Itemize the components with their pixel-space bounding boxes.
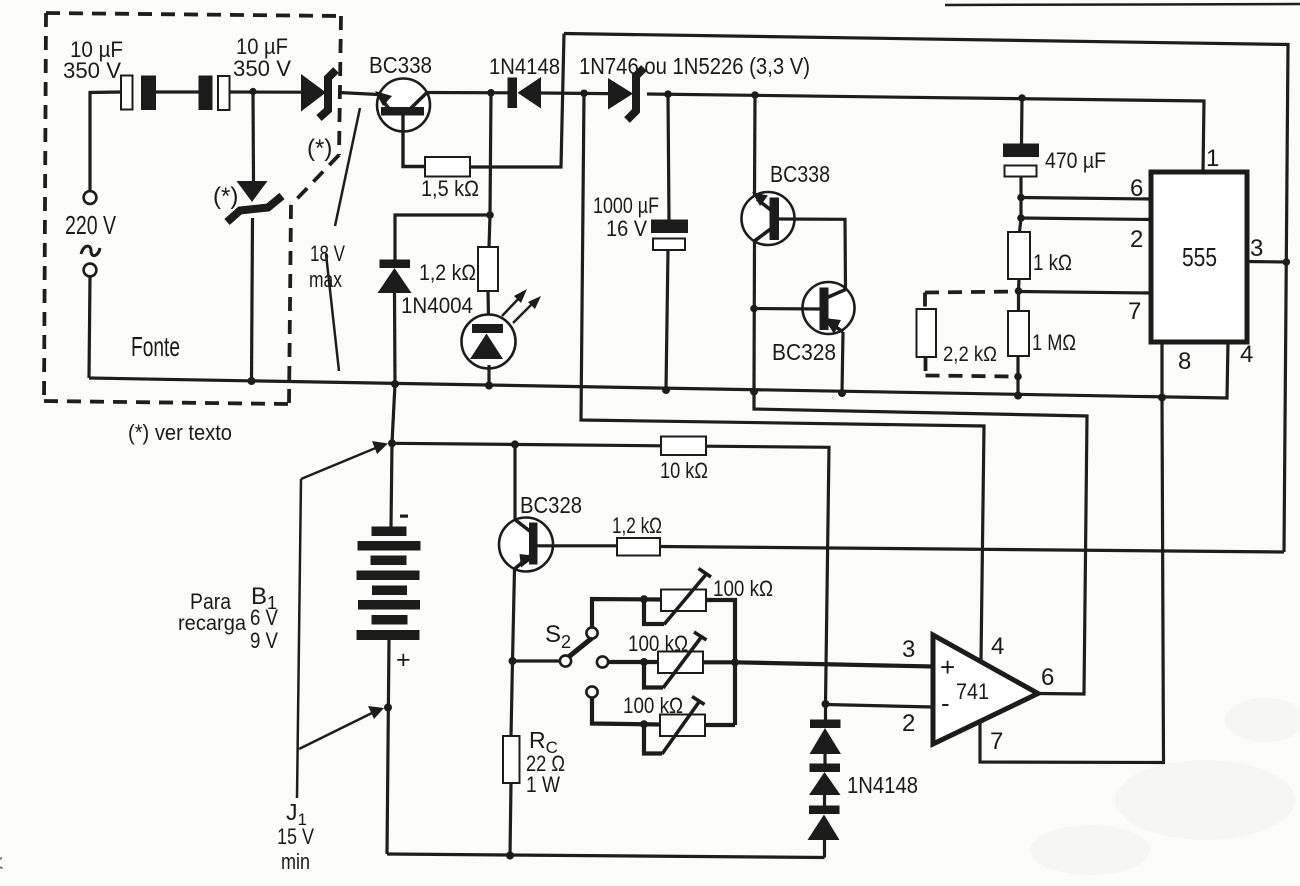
wire 10k line battery node to R3: [392, 443, 661, 446]
label battery minus: [400, 515, 408, 518]
resistor R4 1k: [1008, 232, 1030, 279]
scan page edge artifact top right: [945, 4, 1300, 5]
wire ZD1 to 555 pin1 corner: [647, 94, 1204, 172]
junction dot 470uF tap: [1018, 94, 1026, 102]
wire P2 to pot bus and junction: [703, 660, 735, 664]
mid rail 0V bus: [89, 342, 1228, 398]
zener diode (*) vertical pointing down: [227, 181, 282, 222]
diode D3 1N4148 pointing up: [810, 704, 842, 754]
resistor R1 1.5k: [425, 157, 470, 177]
svg-text:2: 2: [1130, 226, 1143, 253]
capacitor C2 10uF 350V: [199, 76, 230, 111]
svg-text:1,2 kΩ: 1,2 kΩ: [612, 513, 662, 538]
op-amp U2 741: [933, 635, 1038, 744]
junction dot diode stack top: [822, 700, 830, 708]
AC tilde symbol: [81, 246, 100, 256]
switch S2 pole terminal: [560, 655, 571, 666]
wire battery minus riser from mid rail: [392, 384, 395, 443]
resistor R2 1.2k: [478, 247, 498, 291]
svg-text:(*): (*): [213, 183, 238, 210]
J1 arrow lower: [299, 706, 384, 749]
svg-text:1 kΩ: 1 kΩ: [1033, 250, 1072, 275]
svg-text:1,5 kΩ: 1,5 kΩ: [421, 176, 479, 201]
resistor R8 Rc 22ohm: [503, 736, 520, 783]
svg-text:BC328: BC328: [520, 492, 582, 518]
wire 1N4004 to mid rail: [393, 293, 397, 384]
wire S2 node to pole: [513, 659, 560, 662]
label 18 V max: [309, 241, 345, 292]
wire throw2 to pot P2: [608, 660, 658, 664]
svg-text:2,2 kΩ: 2,2 kΩ: [943, 343, 997, 366]
diode D1 1N4148 pointing left: [508, 77, 542, 109]
svg-text:6: 6: [1041, 664, 1054, 691]
junction dot pin6 node: [1017, 194, 1025, 202]
wire battery minus node to battery: [391, 443, 392, 527]
wire Rc to bottom rail: [510, 783, 511, 856]
transistor Q3 BC328: [803, 282, 855, 334]
svg-text:1: 1: [1206, 145, 1219, 172]
svg-text:100 kΩ: 100 kΩ: [628, 631, 688, 656]
junction dot LED branch tap: [487, 89, 495, 97]
transistor Q2 BC338: [742, 192, 795, 245]
junction dot mid rail C3: [662, 386, 670, 394]
wire 555 pin8 to mid rail: [1160, 342, 1163, 398]
wire R2 to LED: [486, 291, 490, 318]
wire R3 to diode stack riser: [706, 446, 829, 704]
svg-text:-: -: [941, 688, 950, 718]
wire R1 to riser to top rail: [470, 34, 564, 168]
leader line upper for 18V max: [335, 108, 360, 226]
diode D5 1N4148 pointing up: [808, 795, 840, 840]
svg-text:4: 4: [991, 633, 1004, 660]
wire Q1 base down and right to R1: [403, 113, 425, 167]
svg-text:1 MΩ: 1 MΩ: [1032, 330, 1076, 355]
leader line lower for 18V max: [326, 254, 339, 371]
svg-text:8: 8: [1178, 348, 1191, 375]
junction dot P1 wiper tie: [640, 595, 648, 603]
wire 741 supply net from top tap down and right to pin4: [581, 93, 984, 660]
svg-text:3: 3: [902, 636, 915, 663]
svg-text:recarga: recarga: [178, 612, 246, 635]
wire 555 pin3 to right rail: [1247, 260, 1286, 264]
wire S2 node to Rc: [511, 661, 513, 736]
junction dot LED branch split: [486, 211, 494, 219]
wire 555 pin7: [1019, 292, 1152, 294]
svg-text:100 kΩ: 100 kΩ: [713, 576, 773, 601]
terminal 220V lower: [84, 264, 97, 277]
svg-text:350 V: 350 V: [63, 58, 121, 83]
wire Q4 collector riser: [513, 444, 516, 519]
svg-text:max: max: [309, 267, 342, 292]
LED indicator: [462, 315, 516, 369]
svg-text:6 V: 6 V: [250, 605, 278, 630]
wire Q2 base to Q3 collector: [779, 219, 846, 290]
wire 741 pin7 to mid rail: [980, 398, 1164, 763]
junction dot mid rail R5: [1014, 392, 1022, 400]
wire node to mid rail: [1016, 377, 1019, 396]
svg-text:3: 3: [1250, 235, 1263, 262]
wire R5 to lower node: [1016, 356, 1019, 377]
wire throw1 to pot P1: [592, 599, 661, 627]
junction dot mid rail Q3 emitter: [838, 389, 846, 397]
wire P3 to pot bus: [705, 723, 735, 727]
wire vertical zener to bottom rail: [252, 218, 253, 381]
potentiometer P3 100k: [644, 697, 705, 755]
potentiometer P1 100k: [644, 569, 711, 625]
wire Q4 emitter down to S2 node: [513, 569, 515, 661]
junction dot Q3 base node: [750, 305, 758, 313]
svg-text:BC338: BC338: [369, 52, 432, 78]
resistor R6 2.2k optional dashed links: [925, 292, 1016, 377]
wire Q3 base to node: [754, 307, 820, 311]
wire R4 to pin7 node: [1017, 279, 1021, 291]
junction dot 1000uF tap: [664, 90, 672, 98]
LED emission arrow 2: [513, 296, 541, 323]
wire Q3 emitter to mid rail: [842, 332, 843, 393]
wire branch split to 1N4004: [395, 215, 490, 260]
LED emission arrow 1: [502, 289, 527, 316]
junction dot pin7 node: [1015, 287, 1023, 295]
resistor R3 10k: [661, 437, 706, 456]
wire C1 to C2: [156, 90, 199, 93]
junction dot mid rail zener: [248, 377, 256, 385]
svg-text:350 V: 350 V: [233, 56, 291, 81]
wire 555 pin6: [1021, 198, 1151, 200]
wire pin2 node to R4: [1020, 218, 1022, 232]
svg-text:470 µF: 470 µF: [1045, 148, 1106, 173]
resistor R7 1.2k: [617, 538, 660, 556]
wire Q2 collector down to Q3 base node: [752, 241, 756, 391]
junction dot R5 lower node: [1014, 373, 1022, 381]
wire P1 to pot bus: [706, 600, 735, 725]
junction dot P2 wiper tie: [640, 658, 648, 666]
svg-text:741: 741: [956, 679, 989, 704]
diode D2 1N4004 pointing up: [378, 260, 412, 294]
wire R7 to right rail 555 output net: [660, 547, 1284, 553]
junction dot Q4 collector tap: [511, 440, 519, 448]
capacitor C1 10uF 350V: [121, 76, 156, 111]
svg-text:220 V: 220 V: [65, 210, 116, 240]
junction dot bottom rail Rc: [506, 852, 514, 860]
wire Q1 collector to 1N4148: [427, 91, 508, 95]
junction dot battery minus node: [388, 439, 396, 447]
svg-text:100 kΩ: 100 kΩ: [623, 693, 683, 718]
wire 555 pin2: [1021, 218, 1151, 220]
junction dot pin2 node: [1017, 214, 1025, 222]
capacitor C3 1000uF 16V: [651, 94, 688, 390]
junction dot mid rail 1N4004: [391, 380, 399, 388]
svg-text:4: 4: [1240, 341, 1253, 368]
wire 1N4148 to zener ZD1: [541, 91, 608, 95]
wire Q2 emitter to top rail: [753, 95, 757, 196]
junction dot P3 wiper tie: [640, 720, 648, 728]
svg-text:(*): (*): [307, 135, 332, 162]
wire pot bus to 741 pin3: [735, 662, 933, 666]
wire diode node to 741 pin2: [826, 705, 934, 708]
switch S2 throw2 terminal: [597, 656, 608, 667]
wire battery plus down to bottom rail: [387, 640, 389, 854]
svg-text:+: +: [940, 652, 955, 682]
svg-text:+: +: [396, 646, 411, 674]
svg-text:9 V: 9 V: [250, 628, 278, 653]
diode D4 1N4148 pointing up: [809, 754, 841, 795]
junction dot J1 tap: [384, 704, 392, 712]
wire LED branch riser from top rail: [490, 93, 491, 215]
battery B1: [357, 527, 421, 641]
svg-text:min: min: [281, 849, 310, 874]
junction dot mid rail Q2Q3: [750, 388, 758, 396]
svg-text:1000 µF: 1000 µF: [593, 193, 659, 218]
scan speck bottom left: [0, 858, 3, 868]
svg-text:Para: Para: [190, 589, 232, 614]
zener diode series (*) pointing right: [301, 70, 336, 118]
svg-text:1N4148: 1N4148: [489, 54, 560, 79]
capacitor C4 470uF: [1003, 98, 1039, 218]
junction dot 741 supply tap: [580, 90, 588, 98]
svg-text:10 kΩ: 10 kΩ: [660, 458, 708, 483]
svg-text:555: 555: [1182, 242, 1217, 272]
wire 220V upper terminal to cap C1: [90, 92, 121, 191]
wire 220V lower terminal down to bottom rail: [89, 277, 90, 379]
wire C2 to zener anode, junction node: [230, 90, 302, 93]
svg-text:Fonte: Fonte: [131, 331, 180, 362]
svg-text:BC338: BC338: [770, 161, 830, 187]
wire LED to mid rail: [487, 365, 490, 385]
top rail from R1 riser to right edge (555 output net): [564, 34, 1288, 553]
junction dot S2 node: [509, 657, 517, 665]
svg-text:1 W: 1 W: [526, 772, 560, 797]
faint scan mottling: [1030, 698, 1300, 875]
svg-text:16 V: 16 V: [606, 216, 647, 241]
terminal 220V upper: [84, 191, 97, 204]
svg-text:6: 6: [1130, 175, 1143, 202]
wire Q4 base to R7: [537, 544, 617, 547]
junction dot pot bus to 741: [731, 658, 739, 666]
zener ZD1 1N746 pointing right: [608, 68, 644, 120]
switch S2 throw1 terminal: [586, 627, 597, 638]
svg-text:1N746 ou 1N5226 (3,3 V): 1N746 ou 1N5226 (3,3 V): [579, 53, 810, 79]
svg-text:7: 7: [990, 728, 1003, 755]
wire 741 output net from mid rail down right: [754, 392, 1087, 695]
wire tap down to vertical zener: [251, 92, 255, 182]
resistor R6 2.2k: [917, 309, 937, 357]
wire diode stack to bottom rail corner: [823, 840, 826, 858]
resistor R5 1M: [1008, 311, 1029, 356]
svg-text:1N4004: 1N4004: [401, 293, 473, 318]
wire zener to Q1 emitter: [339, 93, 378, 95]
Fonte dashed box: [44, 13, 341, 404]
wire throw3 down to pot P3: [592, 698, 660, 725]
svg-text:1N4148: 1N4148: [847, 772, 918, 798]
svg-text:BC328: BC328: [772, 339, 836, 365]
transistor Q1 BC338: [375, 79, 430, 132]
svg-text:1,2 kΩ: 1,2 kΩ: [419, 260, 476, 285]
svg-text:15 V: 15 V: [277, 824, 314, 849]
transistor Q4 BC328: [499, 518, 553, 572]
junction dot at zener tap: [249, 88, 256, 95]
switch S2 arm: [569, 638, 593, 657]
svg-text:7: 7: [1128, 298, 1141, 325]
junction dot mid rail LED: [485, 382, 493, 390]
IC U1 555: [1151, 172, 1247, 342]
svg-text:2: 2: [902, 710, 915, 737]
svg-text:(*) ver texto: (*) ver texto: [128, 420, 232, 445]
junction dot Q2 emitter tap: [751, 91, 759, 99]
potentiometer P2 100k: [644, 632, 707, 688]
switch S2 throw3 terminal: [586, 686, 597, 697]
J1 arrow upper: [301, 441, 388, 479]
wire pin7 node to R5: [1017, 291, 1020, 311]
wire branch split to R2: [489, 215, 490, 247]
J1 input line: [297, 479, 301, 798]
junction dot mid rail 555 pin8: [1158, 394, 1166, 402]
bottom rail: [387, 854, 825, 858]
junction dot 555 pin3 on right rail: [1283, 258, 1291, 266]
